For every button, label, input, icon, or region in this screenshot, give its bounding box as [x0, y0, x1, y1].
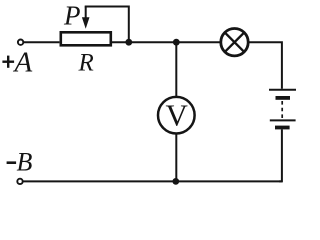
wire A to rheostat	[24, 41, 60, 43]
lamp L1	[221, 29, 248, 56]
battery B1 plate + (long)	[269, 89, 296, 91]
battery B1 plate - (short thick)	[276, 96, 291, 100]
battery B2 plate + (long)	[270, 119, 296, 121]
wire wiper to junction	[85, 7, 129, 43]
terminal -B	[17, 179, 22, 184]
wire bottom	[23, 180, 282, 182]
node junction voltmeter tap	[173, 39, 180, 46]
node junction bottom	[172, 178, 179, 185]
wire lamp to right corner	[248, 42, 282, 89]
wire voltmeter to bottom	[175, 134, 177, 182]
wire rheostat to lamp	[112, 41, 220, 43]
voltmeter V	[158, 97, 195, 134]
node junction wiper/top wire	[125, 39, 132, 46]
wire junction to voltmeter	[175, 42, 177, 97]
svg-text:V: V	[166, 98, 189, 133]
terminal +A	[18, 40, 23, 45]
resistor R (rheostat body)	[61, 32, 111, 45]
svg-text:P: P	[63, 0, 81, 30]
svg-text:B: B	[17, 148, 33, 177]
wiper arrow P	[82, 7, 90, 29]
label -B	[7, 161, 17, 164]
battery B2 plate - (short thick)	[275, 126, 290, 130]
svg-text:R: R	[78, 49, 94, 76]
label +A	[2, 56, 14, 68]
battery dashed link	[281, 101, 283, 119]
wire battery to bottom	[279, 130, 282, 182]
svg-text:A: A	[13, 47, 33, 79]
